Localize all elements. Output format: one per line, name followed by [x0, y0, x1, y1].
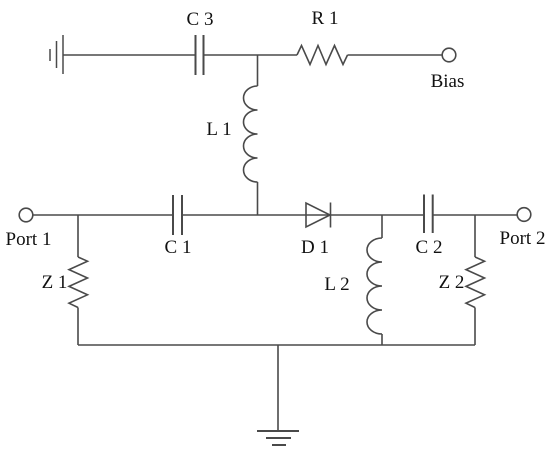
ground (top left, bias supply) — [50, 35, 63, 74]
svg-text:C 3: C 3 — [187, 9, 214, 30]
wire C3 to R1 — [204, 54, 298, 56]
svg-text:Port 1: Port 1 — [6, 229, 52, 250]
wire node to L2 — [381, 215, 383, 238]
resistor R1 — [297, 46, 348, 65]
wire Z1 to bottom rail — [77, 308, 79, 346]
wire L2 to bottom rail — [381, 334, 383, 345]
svg-text:Z 2: Z 2 — [439, 272, 465, 293]
diode D1 — [306, 203, 330, 227]
svg-text:R 1: R 1 — [312, 8, 339, 29]
wire C1 to C2 (through diode) — [182, 214, 424, 216]
terminal Port 2 — [517, 208, 531, 222]
wire Z2 to bottom rail — [474, 308, 476, 346]
wire node to L1 — [257, 55, 259, 86]
resistor Z1 — [69, 257, 88, 308]
svg-text:L 1: L 1 — [206, 119, 231, 140]
resistor Z2 — [466, 257, 485, 308]
ground (bottom) — [257, 431, 299, 445]
capacitor C2 — [424, 195, 433, 234]
inductor L1 — [244, 86, 258, 182]
wire ground to C3 — [63, 54, 196, 56]
terminal Port 1 — [19, 208, 33, 222]
wire L1 to main line — [257, 182, 259, 215]
svg-text:D 1: D 1 — [301, 237, 329, 258]
svg-text:L 2: L 2 — [324, 274, 349, 295]
wire Port1 to C1 — [33, 214, 173, 216]
capacitor C3 — [196, 35, 204, 75]
capacitor C1 — [173, 195, 182, 235]
svg-text:C 1: C 1 — [165, 237, 192, 258]
svg-text:Z 1: Z 1 — [42, 272, 68, 293]
wire node to Z2 — [474, 215, 476, 257]
wire R1 to Bias terminal — [348, 54, 443, 56]
svg-text:C 2: C 2 — [416, 237, 443, 258]
svg-text:Bias: Bias — [431, 71, 465, 92]
svg-text:Port 2: Port 2 — [500, 228, 546, 249]
wire rail to ground — [277, 345, 279, 431]
terminal Bias — [442, 48, 456, 62]
inductor L2 — [367, 238, 382, 334]
bottom rail wire — [78, 344, 475, 346]
wire C2 to Port2 — [433, 214, 518, 216]
wire node to Z1 — [77, 215, 79, 257]
